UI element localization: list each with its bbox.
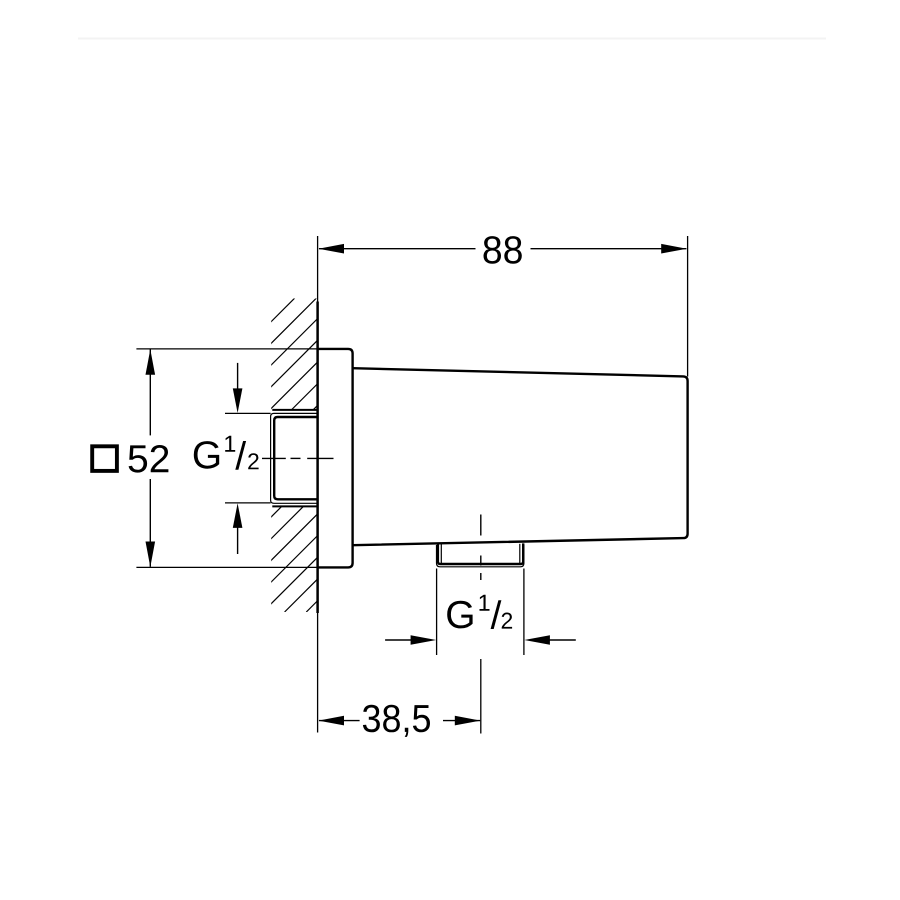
dimension 52 arrow bottom — [146, 542, 156, 568]
wall line (extension line thin full height) — [317, 236, 319, 733]
inlet thread outer thin outline — [271, 413, 318, 503]
inlet thread extension line bottom — [225, 502, 271, 504]
dimension 52 line — [149, 350, 151, 567]
outlet centerline extension for 38,5 — [480, 659, 482, 734]
dimension 88 text — [484, 236, 522, 264]
outlet thread arrow left pointing right — [385, 639, 412, 641]
dimension 38,5 arrow left — [318, 716, 344, 726]
wall line thick segment — [316, 302, 319, 614]
dimension 52 extension line top — [136, 348, 317, 350]
outlet thread extension line left — [436, 569, 438, 656]
dimension 88 arrow right — [661, 244, 687, 254]
outlet thread minor diameter thin lines — [440, 544, 442, 564]
dimension 38,5 line — [319, 720, 480, 722]
vertical centerline of outlet — [480, 515, 482, 581]
dimension 52 text — [129, 445, 169, 473]
tapered body cone — [353, 368, 688, 545]
horizontal centerline of inlet — [262, 457, 334, 459]
G 1/2 label left — [194, 441, 219, 469]
G 1/2 label bottom — [447, 601, 472, 629]
wall section hatch — [0, 298, 620, 612]
wall hole edge top — [272, 409, 317, 411]
outlet thread outer thin outline — [437, 545, 524, 567]
outlet thread body thick outline — [438, 543, 523, 564]
inlet thread arrow down — [237, 363, 239, 390]
dimension 88 line — [319, 248, 686, 250]
square symbol — [92, 446, 117, 471]
inlet thread arrow up — [237, 527, 239, 554]
faint separator line top — [78, 38, 826, 40]
outlet thread extension line right — [523, 569, 525, 656]
dimension 52 extension line bottom — [136, 566, 317, 568]
dimension 38,5 text — [363, 705, 430, 737]
dimension 52 arrow top — [146, 349, 156, 375]
inlet thread extension line top — [225, 412, 271, 414]
dimension 88 arrow left — [318, 244, 344, 254]
wall hole edge bottom — [272, 505, 317, 507]
inlet thread body thick outline — [274, 417, 317, 499]
dimension 88 extension line right — [687, 236, 689, 377]
flange wall plate — [318, 349, 353, 568]
dimension 38,5 arrow right — [455, 716, 481, 726]
outlet thread arrow right pointing left — [548, 639, 576, 641]
